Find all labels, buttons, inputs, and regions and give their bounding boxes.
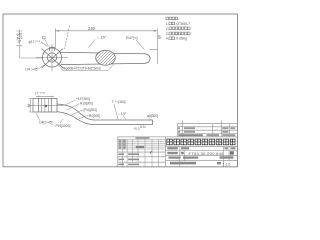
leader [39,65,44,69]
leader for 15deg [89,40,96,48]
svg-text:40: 40 [27,104,31,108]
hub rectangle side view [33,99,57,113]
hub diagonal X line 2 [42,49,64,69]
svg-text:φ17⁺⁰⋅⁵: φ17⁺⁰⋅⁵ [29,40,41,44]
svg-text:1.: 1. [166,22,169,26]
svg-text:φ8: φ8 [157,35,161,39]
small tick near right end [150,48,158,50]
bore line 4 [50,99,52,113]
left rows tiny text [119,140,145,166]
svg-text::QT500-7: :QT500-7 [175,22,190,26]
shaft rounded right end [144,54,150,64]
main vertical divider [165,137,167,167]
section ellipse hatched [68,42,143,72]
arm top edge [57,104,153,120]
svg-text:R15[300]: R15[300] [80,101,93,105]
shaft bottom line [61,63,145,64]
svg-text:4.: 4. [166,37,169,41]
svg-text:R47(≈): R47(≈) [126,36,138,40]
svg-text:∟1.5°: ∟1.5° [118,112,128,116]
left vertical dim of rect [29,99,33,113]
hub inner bore circle [47,53,56,62]
arm end cap [152,120,154,125]
parts rows text blobs [178,127,235,136]
svg-text:6.3√: 6.3√ [140,125,146,129]
drawing frame border [3,14,238,167]
keyway slot on hub top [50,47,55,51]
svg-text::0.65kg: :0.65kg [175,37,187,41]
title block outline [118,137,237,167]
svg-text:FT50.30.200.646: FT50.30.200.646 [189,151,225,156]
hub horizontal centerline [28,104,63,106]
bore line 3 dashed [47,99,49,113]
hub outer circle [43,48,62,67]
svg-text:17⁻⁰⋅⁰⁵: 17⁻⁰⋅⁰⁵ [35,92,46,96]
center vertical line [44,99,46,113]
overall length dimension line [55,26,157,65]
hub diagonal X line 1 [42,49,64,69]
row2: drawing number [167,152,184,154]
left hub diameter dims [17,30,43,59]
svg-text::: : [179,17,180,21]
left extension line [54,29,56,48]
leader fan at bend [64,100,87,120]
leader for R47 [136,40,145,50]
title header tiny text [136,137,150,138]
bore line 2 dashed [40,99,42,113]
svg-text:17: 17 [17,40,21,44]
svg-text:(R4)[300]: (R4)[300] [84,108,97,112]
svg-text:2.: 2. [166,27,169,31]
top dim 17 of bottom view [36,96,54,98]
slanted phantom line at bend projection [65,26,70,50]
shaft top line [61,52,145,54]
svg-text:√6.3: √6.3 [134,126,140,130]
hub horizontal centerline [36,57,68,59]
small circle datum [42,36,45,39]
leader from hub to note [58,64,63,70]
grease hole knob [45,105,48,108]
leader to keyway [41,42,48,47]
right section vertical lines [179,146,181,166]
svg-text:1/4[2×45]: 1/4[2×45] [39,121,52,125]
svg-text:240: 240 [88,26,96,31]
right section horizontal lines [166,145,238,147]
svg-text:3.: 3. [166,32,169,36]
arm bottom edge [57,112,153,125]
arm side view [57,104,153,125]
row4 bottom blobs [170,162,221,165]
svg-text:φ8[300]: φ8[300] [147,114,158,118]
vertical dim line left of hub [19,30,21,59]
svg-text:+R4[300]: +R4[300] [87,114,100,118]
notes line 1: tech requirements heading [166,17,169,20]
row1 small blobs [167,147,235,149]
svg-text:7⁻⁰⋅¹[300]: 7⁻⁰⋅¹[300] [112,100,126,104]
bore line 1 [37,99,39,113]
svg-text:1/4□×45°: 1/4□×45° [25,67,40,71]
leader note to shaft [108,64,114,70]
dim arrows [56,30,60,32]
company name glyph row [167,139,173,145]
right extension line [156,29,158,65]
row3 blobs [169,156,234,158]
svg-text:Mφ60B+P27(T)+M2.5mm: Mφ60B+P27(T)+M2.5mm [63,67,102,71]
hub vertical centerline [51,44,53,72]
left section horizontal lines [118,138,166,140]
left section vertical lines [121,139,123,167]
svg-text:P19[300S]: P19[300S] [56,124,71,128]
signature check mark [150,151,154,154]
svg-text:∟15°: ∟15° [97,36,107,40]
svg-text:1:1.5: 1:1.5 [223,162,231,166]
